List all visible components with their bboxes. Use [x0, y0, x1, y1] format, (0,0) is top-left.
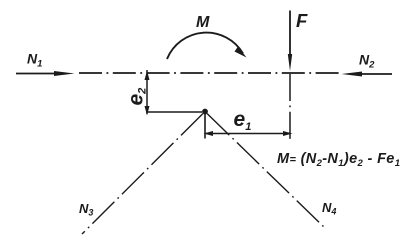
force N1 arrow	[16, 71, 75, 76]
svg-text:e1: e1	[234, 108, 252, 133]
wire: extension line to node	[147, 111, 202, 113]
wire: N4 support line dash-dot	[207, 114, 325, 229]
svg-text:F: F	[296, 10, 308, 31]
svg-text:N4: N4	[322, 200, 336, 217]
wire: horizontal axis dash-dot centerline	[79, 72, 341, 74]
svg-text:M= (N2-N1)e2 - Fe1: M= (N2-N1)e2 - Fe1	[277, 151, 400, 169]
wire: extension from node down	[204, 114, 206, 139]
svg-text:N3: N3	[79, 201, 93, 218]
svg-text:N2: N2	[359, 52, 375, 71]
force N2 arrow	[342, 72, 393, 77]
moment M arc arrow	[167, 33, 247, 59]
node: application point dot	[202, 109, 208, 115]
svg-text:e2: e2	[125, 88, 149, 106]
svg-text:M: M	[196, 14, 210, 31]
dimension e2 line	[145, 70, 150, 116]
svg-text:N1: N1	[27, 51, 42, 70]
dimension e1 line	[204, 131, 293, 136]
wire: F line of action dash-dot below axis	[289, 74, 291, 143]
force F arrow	[288, 11, 292, 72]
wire: N3 support line dash-dot	[82, 114, 203, 235]
